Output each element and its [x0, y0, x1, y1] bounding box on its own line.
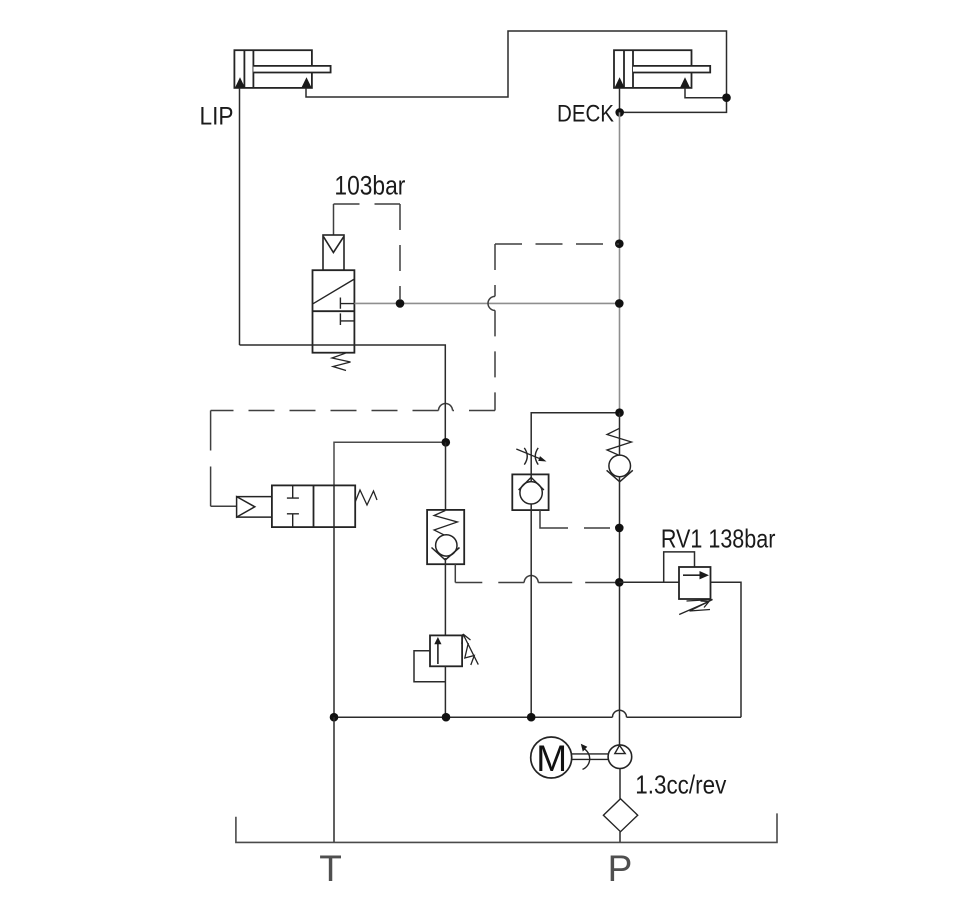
junction J3	[615, 239, 624, 248]
junction J1	[722, 93, 731, 102]
DECK rod-end port arrow	[680, 77, 690, 88]
svg-text:M: M	[536, 738, 567, 779]
relief valve RV1 box	[679, 567, 711, 599]
wire LIP cap-end down	[239, 88, 241, 345]
sequence valve upper position: port T symbol	[340, 298, 354, 309]
hop of bus over pump line	[613, 710, 627, 717]
check valve CV2 ball	[520, 482, 542, 504]
electric motor M circle	[531, 737, 572, 778]
wire DECK line J2 to J5 (gray)	[619, 112, 621, 412]
check valve CV2 box	[512, 474, 548, 510]
valve V2 spring right	[355, 490, 377, 505]
pump outlet triangle	[615, 745, 625, 753]
junction J10	[527, 713, 536, 722]
sequence valve body	[313, 270, 355, 353]
dashed pilot vertical x=495 upper part	[494, 244, 496, 296]
svg-text:103bar: 103bar	[334, 171, 405, 201]
junction J7	[442, 713, 451, 722]
check valve CV2 line through	[530, 474, 532, 510]
svg-text:LIP: LIP	[200, 103, 234, 131]
pilot stub above sequence valve	[333, 204, 335, 236]
dashed pilot horizontal y=410.5 right part	[453, 410, 496, 412]
wire T line down	[333, 717, 335, 842]
check valve CV3 spring (on DECK/P line)	[607, 428, 632, 455]
junction J2	[615, 108, 624, 117]
wire node J1 down-left to node J2	[620, 98, 727, 113]
LIP cap-end port arrow	[235, 77, 245, 88]
valve V2 body	[272, 485, 355, 527]
check valve CV1 box	[427, 510, 464, 564]
junction J9	[396, 299, 405, 308]
relief valve PRV adjustable spring	[465, 643, 475, 665]
pilot branch CV2 bottom solid part	[540, 510, 568, 528]
dashed pilot CV1 to J12 right part	[538, 582, 619, 584]
sequence valve (103bar) pilot-check top box	[323, 235, 344, 270]
dashed pilot line corner 495,244 to J3	[495, 243, 619, 245]
pump circle	[608, 745, 632, 769]
dashed pilot horizontal y=410.5 left part	[211, 410, 439, 412]
check valve CV1 ball	[436, 535, 457, 556]
wire J12 to RV1	[619, 581, 679, 583]
wire J6 down to check CV1	[445, 442, 447, 510]
throttle valve arcs	[524, 448, 538, 465]
wire PRV to bus J7	[444, 666, 446, 717]
wire sequence valve port to J9 and J4 (gray)	[354, 302, 619, 304]
wire LIP line turn right through sequence valve to x=445	[240, 345, 446, 442]
cylinder DECK	[614, 50, 710, 88]
pilot branch from CV1 bottom	[454, 564, 456, 582]
svg-text:P: P	[608, 848, 633, 889]
junction J8	[330, 713, 339, 722]
wire J5 to CV3	[619, 413, 621, 456]
valve V2 left position blocked ports	[287, 485, 299, 527]
dashed pilot bracket 103bar to node J9	[334, 203, 401, 205]
wire RV1 out and down to bus	[711, 582, 742, 717]
svg-text:1.3cc/rev: 1.3cc/rev	[635, 769, 726, 799]
hop of dashed vertical over gray wire at (495,303)	[488, 296, 495, 310]
junction J4	[615, 299, 624, 308]
wire corner x=531 to J5	[531, 413, 619, 443]
sequence valve spring below	[332, 353, 351, 370]
wire pump to filter	[619, 769, 621, 799]
valve V2 pilot actuator triangle	[237, 497, 255, 517]
cylinder LIP	[234, 50, 330, 88]
pilot line into valve V2	[211, 505, 237, 507]
check valve CV1 seat	[432, 548, 460, 561]
check valve CV3 ball	[609, 455, 631, 477]
dashed pilot CV1 to J12 left part	[455, 582, 524, 584]
bus wire left part	[334, 716, 613, 718]
sequence valve upper position: variable orifice diagonal	[313, 279, 354, 303]
rotation direction arc	[583, 749, 590, 770]
check valve CV3 seat	[607, 470, 633, 482]
relief valve PRV pilot loop	[414, 651, 445, 682]
wire LIP rod-end to top rail to node J1	[306, 31, 727, 97]
hop of dashed horizontal over wire at (445.5,410.5)	[439, 404, 453, 411]
svg-text:RV1 138bar: RV1 138bar	[661, 524, 776, 554]
sequence valve lower position: blocked port T symbol	[340, 313, 354, 325]
junction J6	[442, 438, 451, 447]
svg-text:DECK: DECK	[557, 101, 614, 128]
wire CV3 down to pump (passes under bus hop)	[619, 477, 621, 746]
motor shaft double line	[572, 754, 609, 760]
dashed pilot vertical x=495 lower part	[494, 310, 496, 410]
DECK cap-end port arrow	[615, 77, 625, 88]
relief valve RV1 pilot loop	[664, 552, 695, 582]
wire V2 down to bus J8	[333, 527, 335, 717]
wire filter to tank line	[619, 832, 621, 843]
hop of dashed over line x=531	[524, 576, 538, 583]
wire CV2 down to bus J10	[530, 510, 532, 717]
relief valve PRV arrow up	[437, 642, 439, 664]
throttle line through	[530, 443, 532, 474]
tank boundary line	[236, 813, 777, 842]
valve V2 pilot actuator box lines	[237, 497, 272, 517]
dashed pilot vertical x=210.6 down	[210, 411, 212, 507]
check valve CV1 spring	[434, 511, 457, 536]
wire CV1 to relief PRV	[444, 558, 446, 635]
wire DECK rod-end to node J1	[685, 88, 727, 98]
relief valve PRV box	[430, 635, 462, 666]
junction J5	[615, 408, 624, 417]
relief valve RV1 adjustable spring	[687, 600, 713, 612]
junction J11	[615, 524, 624, 533]
check valve CV2 seat	[519, 477, 544, 490]
filter diamond	[603, 799, 637, 832]
valve V2 right position through line	[333, 485, 335, 527]
junction J12	[615, 578, 624, 587]
dashed pilot CV2 to J11	[568, 527, 619, 529]
wire J6 left and down to valve V2 (dark gray)	[334, 442, 446, 485]
relief valve RV1 arrow	[683, 574, 700, 576]
LIP rod-end port arrow	[301, 77, 311, 88]
throttle adjust arrow	[516, 449, 543, 460]
wire DECK cap-end to node J2	[619, 88, 621, 113]
svg-text:T: T	[319, 848, 342, 889]
bus wire right part	[627, 716, 742, 718]
